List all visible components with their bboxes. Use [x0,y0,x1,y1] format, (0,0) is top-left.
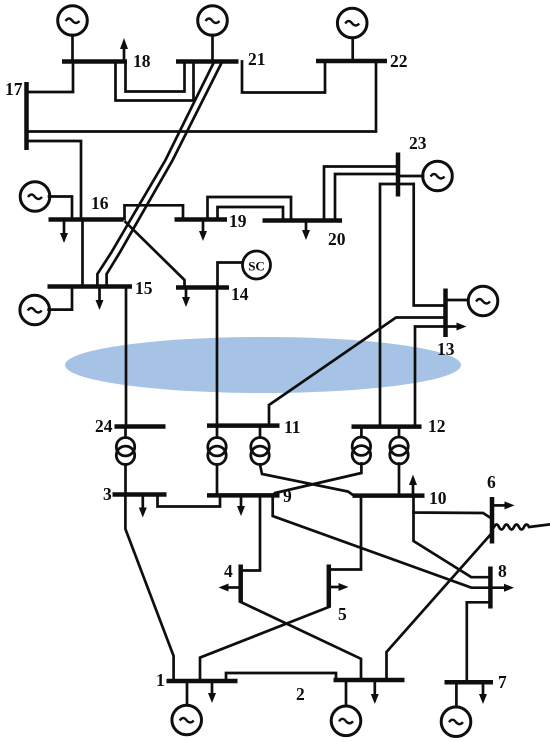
node bus 11 [207,423,280,428]
wire line 20-23 circuit 2 [335,174,398,221]
generator G7 [441,707,471,737]
wire line 1-3 [125,495,173,681]
node bus 21 [176,59,239,64]
wire line 17-18 [27,62,74,93]
node bus 9 [207,493,280,498]
wire xfmr 3-24 bottom lead [124,465,127,495]
svg-text:7: 7 [498,672,507,692]
load arrow bus 9 [240,497,243,508]
wire gen22 lead [351,38,354,61]
node bus 6 [490,497,495,544]
node bus 18 [62,59,127,64]
wire gen21 lead [211,35,214,61]
wire line 11-13 [269,318,446,425]
wire line 17-22 [27,61,377,132]
node bus 10 [353,493,425,498]
node bus 7 [445,680,494,685]
generator G2 [331,706,361,736]
node bus 16 [49,217,124,222]
wire line 16-19 [125,205,184,219]
load arrow bus 15 [98,288,101,302]
wire line 15-24 [125,287,128,426]
svg-text:4: 4 [224,561,233,581]
wire gen23 lead [398,175,423,178]
transformer T9-11 [208,438,226,465]
wire gen13 lead [446,299,469,302]
wire xfmr 9-12 bottom lead [273,464,361,496]
load arrow bus 2 [373,682,376,696]
load arrow bus 5 (right) [330,586,342,589]
wire xfmr 9-12 top lead [360,427,363,437]
wire bus23 header to 12/13 [382,183,414,186]
node bus 8 [488,567,493,609]
transformer T9-12 [352,437,370,464]
wire gen1 lead [186,682,189,705]
node bus 22 [316,59,387,64]
wire gen2 lead [345,681,348,706]
load arrow bus 14 [185,289,188,299]
svg-text:6: 6 [487,472,496,492]
wire xfmr 10-12 leads [398,427,401,437]
wire line 7-8 [467,602,490,682]
load arrow bus 18 (up) [123,47,126,61]
svg-text:21: 21 [248,49,266,69]
wire line 1-2 [226,673,336,681]
wire line 12-23 [379,184,382,426]
wire line 1-5 [200,607,329,681]
wire gen18 lead [71,35,74,61]
svg-text:3: 3 [103,484,112,504]
wire gen7 lead [455,683,458,707]
load arrow bus 16 [63,221,66,235]
node bus 2 [334,678,405,683]
wire line 4-9 [242,496,260,571]
wire line 11-14 [216,288,219,426]
wire line 16-17 [27,141,82,220]
node bus 23 [396,153,401,197]
svg-text:15: 15 [135,278,153,298]
generator G13 [468,286,498,316]
svg-text:13: 13 [437,339,455,359]
svg-text:5: 5 [338,604,347,624]
wire line 2-6 [387,534,492,680]
svg-text:SC: SC [248,259,265,274]
load arrow bus 19 [202,221,205,233]
svg-text:10: 10 [429,488,447,508]
wire line 18-21 circuit 2 [126,62,185,92]
wire line 21-22 [242,61,325,93]
load arrow bus 1 [211,683,214,695]
wire gen15 lead [49,287,72,310]
wire line 15-21 circuit 2 [107,62,222,286]
node bus 5 [327,565,332,608]
svg-text:8: 8 [498,561,507,581]
node bus 15 [48,284,133,289]
svg-text:11: 11 [284,417,301,437]
generator G22 [337,8,367,38]
svg-text:14: 14 [231,284,249,304]
svg-text:23: 23 [409,133,427,153]
load arrow bus 7 [482,684,485,696]
generator G21 [198,6,228,36]
wire xfmr 3-24 top lead [124,427,127,438]
node bus 12 [352,424,422,429]
node bus 14 [176,285,229,290]
wire line 13-23 [414,184,446,306]
wire line 19-20 circuit 2 [218,207,284,220]
wire line 3-9 [158,495,221,507]
svg-text:18: 18 [133,51,151,71]
svg-text:9: 9 [283,486,292,506]
wire line 2-4 [241,602,361,680]
generator G15 [20,295,50,325]
wire line 12-13 [414,327,417,427]
wire SC lead [218,263,243,288]
wire line 19-20 circuit 1 [208,197,292,220]
svg-text:1: 1 [156,670,165,690]
wire line 15-16 [81,220,84,287]
node bus 13 [443,289,448,338]
load arrow bus 6 (right) [493,504,507,507]
wire line 6-10 [414,496,492,519]
wire line 15-21 circuit 1 [97,62,214,286]
generator G16 [20,182,50,212]
node bus 17 [24,82,29,150]
svg-text:24: 24 [95,416,113,436]
wire line 20-23 circuit 1 [324,167,398,221]
node bus 4 [238,565,243,603]
node bus 1 [167,679,238,684]
load arrow bus 8 (right, on 8-9 wire) [504,584,514,592]
transformer T10-12 [390,437,408,464]
wire cable 6 squiggle [494,525,549,530]
svg-text:2: 2 [296,684,305,704]
generator G23 [423,161,453,191]
wire xfmr 9-11 leads [216,426,219,438]
load arrow bus 4 (left) [226,586,240,589]
wire xfmr 10-11 top lead [259,426,262,438]
load arrow bus 20 [305,222,308,232]
load arrow bus 13 (right) [415,325,459,328]
wire line 8-9 [273,496,505,588]
svg-text:17: 17 [5,79,23,99]
transformer T3-24 [116,438,134,465]
node bus 19 [175,217,228,222]
svg-text:20: 20 [328,229,346,249]
wire xfmr 10-11 bottom lead [260,465,353,496]
highlight ellipse (area boundary) [65,337,461,393]
transformer T10-11 [251,438,269,465]
wire gen16 lead [49,197,72,220]
wire line 16-14 [126,222,185,287]
node bus 20 [263,218,343,223]
svg-text:22: 22 [390,51,408,71]
wire line 5-10 [330,496,361,570]
load arrow bus 10 (up) [412,483,415,494]
synchronous condenser SC [243,251,271,279]
svg-text:12: 12 [428,416,446,436]
node bus 24 [115,424,166,429]
wire line 18-21 circuit 1 [116,62,194,101]
svg-text:19: 19 [229,211,247,231]
generator G1 [172,705,202,735]
node bus 3 [113,492,167,497]
svg-text:16: 16 [91,193,109,213]
wire line 8-10 [414,513,490,578]
load arrow bus 3 [141,496,144,509]
generator G18 [58,6,88,36]
